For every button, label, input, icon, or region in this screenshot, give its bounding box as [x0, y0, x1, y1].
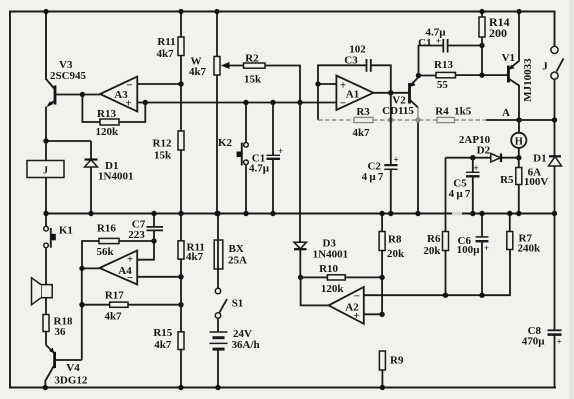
op-amp A3: [100, 77, 137, 112]
svg-text:25A: 25A: [228, 255, 247, 267]
node middle bus at BX column: [215, 211, 220, 216]
op-amp A4: [100, 251, 138, 285]
node top bus at V1 collector: [516, 9, 521, 14]
transistor V2 CD115: [382, 77, 418, 120]
capacitor C1 4.7u: [249, 103, 283, 214]
resistor R10 120k: [301, 263, 383, 295]
node D3 / R10 / A2 output junction: [298, 275, 303, 280]
node C1/R14 junction: [479, 43, 484, 48]
svg-text:4.7µ: 4.7µ: [249, 163, 270, 175]
node signal bus at K2 column: [243, 100, 248, 105]
wire A2 inverting input to C6/R7: [364, 250, 510, 296]
svg-text:R6: R6: [427, 233, 441, 245]
resistor R15 4k7: [153, 327, 184, 388]
svg-text:C1: C1: [418, 37, 431, 49]
svg-text:15k: 15k: [244, 74, 262, 86]
svg-text:20k: 20k: [387, 248, 405, 260]
diode D3 1N4001: [294, 238, 348, 278]
capacitor C6 100u: [457, 214, 489, 296]
wire D3 column from signal bus: [299, 103, 301, 243]
svg-text:D2: D2: [477, 145, 491, 157]
fuse BX 25A: [214, 214, 247, 270]
resistor R7 240k: [507, 214, 541, 255]
svg-text:20k: 20k: [423, 245, 441, 257]
svg-text:470µ: 470µ: [522, 336, 546, 348]
svg-text:K1: K1: [59, 225, 73, 237]
node A at right column: [552, 117, 557, 122]
transistor V1 MJ10033: [502, 12, 534, 121]
diode D1 1N4001 relay clamp: [85, 141, 134, 214]
svg-text:R8: R8: [388, 234, 402, 246]
svg-text:4k7: 4k7: [352, 127, 370, 139]
svg-text:R10: R10: [319, 263, 338, 275]
svg-text:+: +: [484, 243, 489, 253]
node bottom bus at battery column: [215, 385, 220, 390]
wire A4 output to junction: [82, 267, 100, 269]
svg-text:R17: R17: [105, 289, 124, 301]
node middle bus at K2 column: [243, 211, 248, 216]
svg-text:55: 55: [437, 79, 449, 91]
svg-text:+: +: [278, 146, 283, 156]
pushbutton K2: [218, 103, 248, 214]
node bottom bus at R9 column: [380, 385, 385, 390]
wire top supply bus: [10, 11, 555, 13]
diode D1 6A 100V: [524, 120, 562, 214]
svg-text:120k: 120k: [321, 283, 345, 295]
svg-text:+: +: [474, 163, 479, 173]
svg-text:R16: R16: [97, 223, 116, 235]
node top bus at V3 column: [43, 9, 48, 14]
capacitor C8 470u: [522, 214, 562, 388]
svg-text:R3: R3: [356, 106, 370, 118]
battery 24V 36A/h: [210, 318, 260, 387]
svg-text:V1: V1: [502, 52, 515, 64]
relay contact switch J: [542, 12, 563, 121]
node R3/R4 line at C2 column: [388, 117, 393, 122]
svg-text:−: −: [340, 98, 346, 110]
svg-text:4k7: 4k7: [156, 48, 174, 60]
node V3 emitter column at relay branch: [43, 138, 48, 143]
node V3 base / A3 output junction: [80, 92, 85, 97]
node A2 + input at R8/R9 column: [379, 312, 384, 317]
wire node A to relay contact column: [519, 119, 555, 121]
op-amp A2: [329, 287, 364, 324]
wire A3 non-inverting input bus to A1 inverting input: [137, 102, 336, 104]
svg-text:1N4001: 1N4001: [313, 248, 348, 260]
svg-text:D1: D1: [533, 153, 546, 165]
node A4 output junction: [79, 266, 84, 271]
svg-text:4k7: 4k7: [186, 251, 204, 263]
node signal bus at C1 column: [270, 100, 275, 105]
resistor R4 1k5: [391, 106, 519, 123]
node middle bus at V2 collector column: [415, 211, 420, 216]
wire V3 collector column: [45, 12, 47, 80]
node A1 + input / C3 / R3 junction: [315, 81, 320, 86]
node middle bus at C2 column: [388, 211, 393, 216]
resistor R6 20k: [423, 232, 448, 296]
resistor R11 4k7 upper: [156, 12, 184, 132]
wire V4 base column to A4 output: [81, 268, 83, 360]
svg-text:3DG12: 3DG12: [54, 374, 88, 386]
resistor R13 55: [419, 59, 509, 91]
resistor R14 200: [479, 12, 510, 76]
diode D2 2AP10: [446, 134, 519, 162]
node R16 / C7 / A4 + junction: [151, 238, 156, 243]
wire A3 inverting input to R11/R12 divider: [137, 83, 181, 85]
page scan edge shadow: [570, 0, 574, 399]
resistor R16 56k: [82, 223, 154, 269]
node middle bus at D1 column: [88, 211, 93, 216]
node signal bus at R2/D3 column: [297, 100, 302, 105]
node R17 tap junction: [79, 302, 84, 307]
svg-text:R2: R2: [245, 53, 259, 65]
resistor R2 15k with wiper arrow: [221, 53, 300, 103]
svg-text:J: J: [542, 60, 548, 72]
relay coil J: [27, 141, 64, 214]
wire D2 anode column to R6: [445, 158, 447, 232]
svg-text:+: +: [394, 155, 399, 165]
node R11/R12 divider tap: [178, 81, 183, 86]
svg-text:223: 223: [128, 229, 145, 241]
svg-text:−: −: [126, 80, 132, 92]
svg-text:1N4001: 1N4001: [98, 171, 133, 183]
node middle bus at C6 column: [479, 211, 484, 216]
node A2 - line at R6 column: [443, 293, 448, 298]
wire A4 non-inverting input: [137, 241, 154, 260]
node A2 - line at C6 column: [479, 293, 484, 298]
svg-text:A1: A1: [346, 89, 359, 101]
svg-text:J: J: [43, 166, 48, 177]
capacitor C7 223: [128, 214, 163, 242]
svg-text:100µ: 100µ: [457, 244, 481, 256]
svg-text:−: −: [127, 272, 133, 284]
svg-text:BX: BX: [229, 243, 244, 255]
svg-text:C3: C3: [344, 55, 358, 67]
scan fade spot on middle bus: [452, 212, 462, 215]
svg-text:CD115: CD115: [382, 105, 414, 117]
node divider at A4 - input: [178, 274, 183, 279]
node middle bus at R8 column: [379, 211, 384, 216]
svg-text:+: +: [340, 80, 346, 92]
resistor R18 36: [43, 315, 73, 346]
node top bus at R11 column: [178, 9, 183, 14]
op-amp A1: [336, 76, 373, 111]
svg-text:R11: R11: [157, 36, 175, 48]
node middle bus at right column: [552, 211, 557, 216]
node middle bus at R12 column: [178, 211, 183, 216]
wire middle bus rail: [46, 213, 555, 215]
resistor R11 4k7 lower: [178, 214, 205, 332]
svg-text:2SC945: 2SC945: [50, 70, 87, 82]
svg-text:4 µ 7: 4 µ 7: [362, 171, 384, 183]
node top bus at R14 column: [479, 9, 484, 14]
capacitor C1 4.7u speedup: [418, 27, 482, 76]
resistor R5: [500, 158, 522, 214]
node middle bus at R7 column: [507, 211, 512, 216]
node R8 / R10 / R9 column junction: [379, 275, 384, 280]
capacitor C2 4u7: [362, 93, 399, 214]
potentiometer W 4k7: [189, 12, 220, 214]
svg-text:56k: 56k: [97, 246, 115, 258]
svg-text:R12: R12: [153, 138, 172, 150]
svg-text:R13: R13: [434, 59, 453, 71]
node A3 + input / R13 feedback tap: [143, 100, 148, 105]
svg-text:+: +: [127, 254, 133, 266]
node R3/R4 line at V2 collector: [415, 117, 420, 122]
svg-text:4k7: 4k7: [154, 339, 172, 351]
svg-text:R15: R15: [153, 327, 172, 339]
node middle bus at R5 column: [516, 211, 521, 216]
loudspeaker: [32, 278, 53, 315]
svg-text:R13: R13: [97, 108, 116, 120]
wire A2 non-inverting input: [364, 313, 382, 315]
svg-text:A: A: [502, 107, 510, 119]
svg-text:R4: R4: [435, 106, 449, 118]
node V2 emitter / R13 / C1 junction: [416, 73, 421, 78]
wire emitter junction to relay branch: [46, 140, 91, 142]
resistor R3 4k7: [318, 84, 391, 139]
node A: [502, 107, 522, 123]
node divider at R17: [178, 302, 183, 307]
node bottom bus at V4 emitter: [43, 385, 48, 390]
node R13/R14/V1 base junction: [479, 72, 484, 77]
switch S1: [215, 269, 243, 318]
svg-text:4 µ 7: 4 µ 7: [449, 188, 471, 200]
transistor V4 3DG12: [45, 345, 88, 388]
svg-text:+: +: [353, 310, 359, 322]
capacitor C5 4u7: [449, 158, 480, 214]
capacitor C3 102 feedback loop: [318, 44, 391, 93]
svg-text:4k7: 4k7: [104, 310, 122, 322]
node top bus at W column: [214, 9, 219, 14]
wire left border return: [9, 12, 11, 388]
resistor R17 4k7: [82, 289, 181, 322]
wire A1 output to V2 base: [373, 92, 408, 94]
wire A2 output loop: [301, 277, 329, 305]
node middle bus at relay column: [43, 211, 48, 216]
svg-text:H: H: [515, 137, 523, 148]
wire V2 collector column: [417, 120, 419, 214]
node middle bus at W column: [214, 211, 219, 216]
svg-text:R9: R9: [390, 355, 404, 367]
svg-text:S1: S1: [232, 298, 244, 310]
svg-text:240k: 240k: [518, 242, 542, 254]
resistor R13 120k feedback: [82, 95, 145, 139]
svg-text:100V: 100V: [524, 176, 549, 188]
resistor R12 15k: [153, 131, 184, 214]
node D2 line at C5 column: [470, 155, 475, 160]
svg-text:36A/h: 36A/h: [232, 339, 260, 351]
svg-text:4k7: 4k7: [189, 66, 207, 78]
svg-text:200: 200: [489, 26, 507, 40]
wire A1 non-inverting input: [318, 83, 336, 85]
resistor R8 20k: [379, 214, 405, 315]
transistor V3 2SC945: [46, 59, 87, 141]
svg-text:−: −: [354, 291, 360, 303]
motor H: [511, 120, 526, 158]
svg-text:15k: 15k: [154, 150, 172, 162]
wire A3 output to junction: [82, 94, 100, 96]
svg-text:K2: K2: [218, 137, 233, 149]
svg-text:36: 36: [55, 326, 67, 338]
svg-text:120k: 120k: [95, 126, 119, 138]
node middle bus at C1 column: [270, 211, 275, 216]
wire A4 inverting input to divider: [137, 276, 181, 278]
pushbutton K1: [44, 214, 73, 279]
svg-text:+: +: [557, 337, 562, 347]
node bottom bus at R15 column: [178, 385, 183, 390]
resistor R9: [379, 351, 404, 388]
node H / D2 / R5 junction: [516, 155, 521, 160]
svg-text:MJ10033: MJ10033: [522, 58, 534, 102]
node middle bus at C5 column: [470, 211, 475, 216]
svg-text:+: +: [125, 98, 131, 110]
node A1 output / C3 / C2 junction: [388, 90, 393, 95]
wire bottom ground bus: [10, 387, 555, 389]
svg-text:R5: R5: [500, 174, 514, 186]
svg-text:1k5: 1k5: [454, 106, 472, 118]
svg-text:V4: V4: [66, 362, 80, 374]
node middle bus at C7 column: [151, 211, 156, 216]
